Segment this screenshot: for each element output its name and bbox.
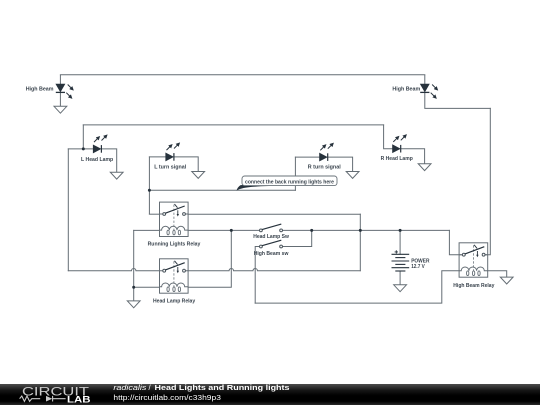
ground L head lamp	[110, 172, 123, 179]
ground battery	[394, 285, 407, 292]
ground L turn signal	[192, 172, 205, 179]
wire +12 rail head lamp sw to corner	[283, 229, 450, 231]
wire running relay switch input	[149, 213, 159, 215]
wire head lamp relay switch feed (with gap at hop)	[68, 270, 159, 272]
ground R turn signal	[346, 172, 359, 179]
LED right High Beam	[420, 75, 436, 97]
wire L turn signal cathode to ground	[174, 157, 198, 172]
svg-text:Head Lamp Sw: Head Lamp Sw	[253, 234, 289, 240]
wire head lamp relay switch output	[188, 270, 360, 272]
wire high beam relay coil to ground	[488, 271, 507, 277]
wire coil ground vertical	[133, 230, 135, 301]
svg-text:12.7 V: 12.7 V	[411, 264, 425, 270]
junction relay coil ground	[132, 286, 135, 289]
note bubble connect the back running lights here	[242, 176, 337, 186]
ground high beam relay coil	[500, 277, 513, 284]
LED L Head Lamp	[93, 137, 105, 153]
wire hop over coil-ground vertical	[132, 269, 136, 271]
ground left high beam	[54, 106, 67, 113]
junction +12 rail / relay coils	[230, 229, 233, 232]
wire high beam sw right branch	[283, 230, 312, 246]
battery POWER 12.7 V	[392, 250, 410, 271]
junction +12 rail / high beam sw	[310, 229, 313, 232]
wire R turn signal cathode to ground	[328, 157, 353, 171]
wire high-beam top rail	[60, 74, 424, 76]
svg-text:High Beam Relay: High Beam Relay	[453, 283, 495, 289]
wire +12 rail down to high beam relay switch	[449, 230, 462, 254]
svg-text:radicalis: radicalis	[113, 384, 146, 392]
wire right tall vertical to high-beam relay	[485, 108, 490, 254]
svg-text:Head Lamp Relay: Head Lamp Relay	[153, 299, 196, 305]
wire R turn signal feed vertical	[294, 157, 296, 190]
svg-text:Head Lights and Running lights: Head Lights and Running lights	[155, 384, 290, 392]
switch Head Lamp Sw	[260, 224, 283, 232]
wire relay coil ground link	[134, 286, 160, 288]
footer CircuitLab logo	[0, 384, 110, 405]
svg-text:High Beam: High Beam	[26, 86, 54, 92]
wire rail coil-left to relay	[134, 229, 160, 231]
wire L turn signal anode	[149, 156, 165, 158]
wire L head lamp cathode to ground	[102, 149, 117, 172]
wire +12 rail coil to head lamp sw	[188, 229, 259, 231]
wire R head lamp cathode to ground	[401, 149, 425, 164]
junction +12 rail / battery	[399, 229, 402, 232]
ground R head lamp	[418, 164, 431, 171]
svg-text:R Head Lamp: R Head Lamp	[381, 156, 414, 162]
svg-text:High Beam sw: High Beam sw	[254, 251, 289, 257]
wire high beam sw to relay coil bottom run	[255, 271, 459, 303]
svg-text:connect the back running light: connect the back running lights here	[245, 179, 334, 185]
wire head-lamp rail	[83, 124, 383, 126]
wire R turn signal anode	[295, 156, 319, 158]
svg-text:L Head Lamp: L Head Lamp	[81, 157, 114, 163]
wire high beam sw left branch	[255, 247, 259, 304]
wire R head lamp feed from rail	[384, 125, 393, 149]
LED left High Beam	[56, 75, 72, 97]
wire node A vertical (L turn to running node)	[148, 157, 150, 214]
wire running lights node horizontal	[149, 189, 295, 191]
relay High Beam Relay	[459, 243, 488, 277]
note callout tail	[237, 185, 290, 191]
LED R Head Lamp	[393, 137, 405, 153]
ground relay coils	[127, 301, 140, 308]
wire hop over high-beam-sw vertical	[253, 269, 257, 271]
wire running relay switch output to +12 rail	[188, 213, 360, 215]
relay Head Lamp Relay	[160, 259, 189, 293]
wire L head lamp feed from rail	[82, 125, 84, 149]
wire L head lamp row left	[68, 148, 93, 150]
svg-text:Running Lights Relay: Running Lights Relay	[148, 242, 202, 248]
svg-text:R turn signal: R turn signal	[308, 165, 341, 171]
switch High Beam sw	[260, 240, 283, 248]
wire battery to ground	[399, 271, 401, 285]
LED R turn signal	[320, 145, 332, 161]
wire left high-beam LED cathode to ground	[59, 93, 61, 106]
footer bar	[0, 384, 540, 405]
svg-text:L turn signal: L turn signal	[154, 165, 186, 171]
wire left tall vertical to head lamp relay	[67, 149, 69, 271]
relay Running Lights Relay	[160, 202, 189, 236]
junction L head lamp feed	[82, 147, 85, 150]
wire hop over headlamp-coil vertical	[229, 269, 233, 271]
junction running lights node	[148, 189, 151, 192]
svg-text:http://circuitlab.com/c33h9p3: http://circuitlab.com/c33h9p3	[113, 393, 220, 402]
wire battery feed	[399, 230, 401, 254]
svg-text:/: /	[149, 384, 152, 392]
wire head lamp relay coil right branch	[188, 230, 231, 287]
footer title and url	[0, 384, 540, 405]
wire vertical running-switch to headlamp-switch	[359, 214, 361, 271]
LED L turn signal	[166, 145, 178, 161]
junction +12 rail / relay switches	[359, 229, 362, 232]
wire right high-beam cathode elbow	[425, 93, 491, 108]
svg-text:High Beam: High Beam	[392, 86, 420, 92]
